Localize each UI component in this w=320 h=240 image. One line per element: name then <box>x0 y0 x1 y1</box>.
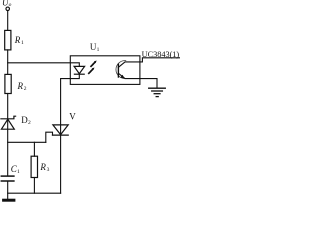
svg-text:2: 2 <box>24 86 27 92</box>
wire R2 through D2 to C1 <box>7 94 9 176</box>
svg-text:V: V <box>69 111 76 121</box>
ground bar bottom left <box>4 199 14 202</box>
light arrows <box>89 63 95 74</box>
ground symbol right <box>149 88 166 96</box>
optocoupler box U1 <box>70 56 140 85</box>
bottom wire <box>8 192 61 194</box>
wire terminal to R1 <box>7 11 9 31</box>
svg-text:2: 2 <box>28 120 31 126</box>
svg-text:1: 1 <box>97 47 100 53</box>
label U1 <box>90 42 100 53</box>
svg-text:R: R <box>17 81 24 91</box>
wire rail to TL431 ref corner <box>8 141 46 143</box>
phototransistor in optocoupler <box>116 61 140 79</box>
label R3 <box>39 162 49 173</box>
wire collector to UC3843 pin 1 <box>140 58 180 62</box>
resistor R1 <box>5 30 11 50</box>
label D2 <box>21 115 31 126</box>
wire R3 bottom stem <box>33 178 35 194</box>
wire R1 to R2 <box>7 50 9 75</box>
wire R3 top stem <box>33 142 35 156</box>
wire junction to optocoupler LED <box>8 63 80 67</box>
TL431 ref lead <box>46 132 53 142</box>
wire C1 to bottom rail <box>7 182 9 200</box>
TL431 cathode bar <box>53 134 69 136</box>
wire emitter to ground <box>140 79 157 88</box>
label R1 <box>14 35 24 46</box>
terminal circle Uo <box>6 7 10 11</box>
svg-text:UC3843(1): UC3843(1) <box>142 50 180 59</box>
wire LED cathode through TL431 to bottom rail <box>61 74 80 193</box>
emitter arrow head <box>120 75 124 79</box>
resistor R3 <box>31 156 37 177</box>
label V <box>69 111 76 121</box>
svg-text:R: R <box>14 35 21 45</box>
zener diode D2 <box>1 116 16 129</box>
label UC3843(1) <box>142 50 180 59</box>
svg-text:R: R <box>39 162 46 172</box>
svg-text:1: 1 <box>17 169 20 175</box>
capacitor C1 <box>1 176 14 181</box>
svg-text:3: 3 <box>47 167 50 173</box>
label R2 <box>17 81 27 92</box>
TL431 V: cathode wire, triangle <box>53 125 68 135</box>
LED diode in optocoupler <box>74 66 85 74</box>
svg-text:1: 1 <box>21 40 24 46</box>
resistor R2 <box>5 74 11 93</box>
label C1 <box>11 164 20 175</box>
node Uo terminal label <box>2 0 12 8</box>
